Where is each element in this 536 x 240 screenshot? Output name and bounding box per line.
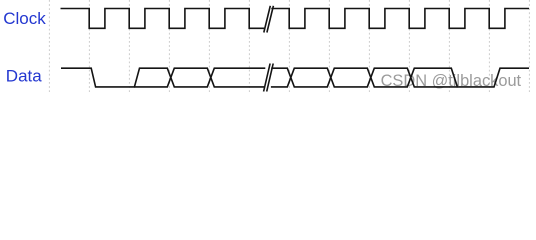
svg-text:Clock: Clock — [3, 9, 46, 28]
svg-text:Data: Data — [6, 67, 42, 86]
